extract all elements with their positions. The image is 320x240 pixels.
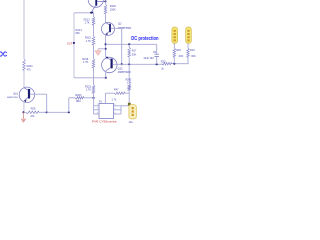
wire Q16 base down xyxy=(46,94,48,112)
svg-text:1.7k: 1.7k xyxy=(112,98,117,101)
resistor R29 xyxy=(26,111,41,114)
svg-text:1.7K: 1.7K xyxy=(86,89,91,92)
pin 2 stub (P1 left) xyxy=(94,109,99,111)
wire Q16 emitter down xyxy=(23,101,25,112)
wire R47 right xyxy=(126,92,129,94)
wire R127 top lead xyxy=(128,44,130,47)
resistor R26 xyxy=(23,59,26,72)
wire R213-R215 xyxy=(93,26,95,36)
svg-text:1.7k: 1.7k xyxy=(127,81,132,84)
svg-text:00K: 00K xyxy=(179,55,184,58)
wire R213 top xyxy=(93,13,95,17)
svg-text:1.7K: 1.7K xyxy=(86,40,91,43)
junction Q14 emitter node xyxy=(90,12,92,14)
wire P1 right pins vertical xyxy=(120,106,122,114)
net flag VDC1 (yellow) xyxy=(172,27,178,43)
svg-text:PVR CY58onmba: PVR CY58onmba xyxy=(92,119,117,123)
svg-text:10uF 16V: 10uF 16V xyxy=(143,57,154,60)
net flag VDC2 (yellow) xyxy=(186,27,192,43)
junction Q14 collector xyxy=(104,0,106,2)
resistor R216 xyxy=(92,59,95,70)
wire R26 to Q16 collector xyxy=(23,72,25,88)
resistor R19 xyxy=(187,48,190,59)
wire R240 to Q2 xyxy=(105,15,107,22)
wire net DC vertical xyxy=(23,0,25,59)
svg-text:DCP: DCP xyxy=(67,42,73,45)
wire R240 top xyxy=(105,1,107,4)
junction P1 left pins xyxy=(93,97,95,99)
svg-text:Q2: Q2 xyxy=(118,22,122,26)
net flag bottom (yellow) xyxy=(128,103,136,119)
connector P1 body xyxy=(99,103,114,118)
svg-text:00K: 00K xyxy=(191,55,196,58)
junction R127 top xyxy=(128,43,130,45)
wire upper rail xyxy=(106,43,157,45)
wire P1 pin6 to flag xyxy=(121,105,129,107)
svg-text:N/a: N/a xyxy=(129,121,133,124)
wire to R203 left xyxy=(69,97,75,99)
pin 5 stub (P1 right) xyxy=(114,109,122,111)
svg-text:1.7K: 1.7K xyxy=(84,22,89,25)
pin 3 stub (P1 left) xyxy=(94,113,99,115)
svg-text:R29: R29 xyxy=(31,107,36,111)
junction pink arrow branch xyxy=(105,48,107,50)
wire Q2 emitter down xyxy=(105,34,107,57)
wire cap drop xyxy=(156,44,158,54)
svg-text:MMBT3906: MMBT3906 xyxy=(7,97,19,99)
svg-text:5: 5 xyxy=(114,108,115,110)
junction R18 bottom xyxy=(173,63,175,65)
svg-text:1.7K: 1.7K xyxy=(83,61,88,64)
resistor R23 xyxy=(162,62,174,64)
wire up to R203 xyxy=(68,98,70,113)
power flag (pink arrow) xyxy=(95,49,106,55)
resistor R213 xyxy=(92,17,95,27)
junction at Q16 emitter node xyxy=(22,111,24,113)
svg-text:DC protection: DC protection xyxy=(131,36,158,42)
wire left vertical net xyxy=(73,13,75,78)
transistor Q16 xyxy=(19,87,34,102)
svg-text:00K: 00K xyxy=(132,53,137,56)
node DCP marker xyxy=(73,42,75,44)
svg-text:R203: R203 xyxy=(75,94,82,97)
wire R203 to P1 pins xyxy=(85,97,94,99)
resistor R203 xyxy=(75,97,85,100)
junction base-emitter net xyxy=(46,111,48,113)
svg-text:4: 4 xyxy=(114,112,115,114)
svg-text:47k: 47k xyxy=(30,114,35,118)
wire rail to R47 node xyxy=(128,64,130,84)
svg-text:0R0: 0R0 xyxy=(76,100,81,103)
wire R29 to base node xyxy=(41,111,47,113)
wire R127 bottom lead xyxy=(128,58,130,64)
svg-text:DC: DC xyxy=(0,52,7,59)
junction R127 bottom xyxy=(128,63,130,65)
junction cap bottom xyxy=(156,63,158,65)
wire R47 left xyxy=(105,92,114,94)
svg-text:00K: 00K xyxy=(75,32,80,35)
svg-text:R240: R240 xyxy=(110,5,117,8)
pin 4 stub (P1 right) xyxy=(114,113,122,115)
wire top rail xyxy=(74,12,94,14)
wire lower rail xyxy=(113,63,162,65)
transistor Q2 xyxy=(102,22,115,35)
wire R216-R222 xyxy=(93,69,95,85)
wire flag2 down xyxy=(187,43,189,47)
wire R242 to R47 corner xyxy=(128,91,130,93)
wire R19 corner xyxy=(188,63,190,65)
svg-text:C9: C9 xyxy=(153,51,157,54)
wire R222 to P1 node xyxy=(93,94,95,98)
wire R47 left down xyxy=(104,93,106,103)
resistor R127 xyxy=(128,47,131,58)
svg-text:1: 1 xyxy=(97,104,98,106)
svg-text:47k: 47k xyxy=(27,68,32,71)
svg-text:P1: P1 xyxy=(99,100,103,104)
svg-text:3: 3 xyxy=(97,112,98,114)
wire emitter net to R203 xyxy=(47,111,69,113)
junction at R203 branch xyxy=(68,111,70,113)
svg-text:R47: R47 xyxy=(114,88,119,91)
svg-text:R23: R23 xyxy=(161,60,166,63)
svg-text:Q16: Q16 xyxy=(13,93,18,96)
transistor Q14 xyxy=(88,0,105,13)
wire Q2 base xyxy=(111,27,122,29)
resistor R215 xyxy=(92,36,95,46)
wire R18 bottom xyxy=(173,59,175,64)
svg-text:2: 2 xyxy=(97,108,98,110)
svg-text:R19: R19 xyxy=(190,49,195,52)
svg-text:100K: 100K xyxy=(110,9,116,12)
junction Q2 base to lower rail xyxy=(121,63,123,65)
wire Q15 collector down xyxy=(105,71,107,78)
resistor R47 xyxy=(114,92,126,95)
wire collector node left xyxy=(74,77,106,79)
svg-text:R18: R18 xyxy=(176,49,181,52)
junction upper rail xyxy=(105,43,107,45)
wire Q16 base xyxy=(30,93,47,95)
svg-text:1k: 1k xyxy=(161,67,164,70)
svg-text:R17: R17 xyxy=(132,49,137,52)
wire Q2 base down xyxy=(121,28,123,64)
capacitor C58 xyxy=(154,54,159,64)
junction collector node xyxy=(105,77,107,79)
resistor R242 xyxy=(128,84,131,91)
wire R215-R216 xyxy=(93,46,95,59)
svg-text:6: 6 xyxy=(114,104,115,106)
wire flag1 down xyxy=(173,43,175,47)
resistor R222 xyxy=(92,85,95,95)
resistor R240 xyxy=(104,4,107,15)
power symbol (red arrow down) xyxy=(21,112,25,122)
transistor Q15 xyxy=(102,57,117,73)
pin 6 stub (P1 right) xyxy=(114,105,122,107)
pin 1 stub (P1 left) xyxy=(94,105,99,107)
wire P1 left pins vertical xyxy=(93,98,95,114)
resistor R18 xyxy=(173,48,176,59)
wire down to flag xyxy=(128,93,130,104)
wire rail right segment xyxy=(173,63,189,65)
wire R19 bottom xyxy=(187,59,189,64)
